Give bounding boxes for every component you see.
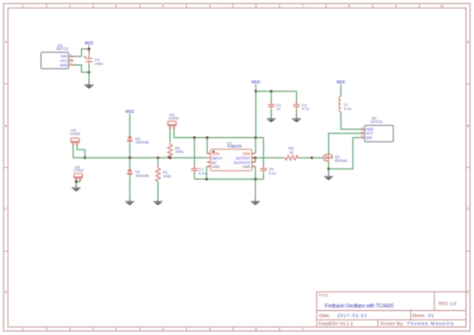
- frame zone ticks left: [4, 84, 9, 252]
- VCC stem (C2 rail): [255, 84, 257, 91]
- diode D1 1N4148: [127, 169, 132, 176]
- wire bus to D1: [129, 158, 131, 169]
- wire C2 drop: [270, 91, 272, 102]
- capacitor C4: [84, 52, 93, 69]
- wire gnd rail to ground: [254, 179, 256, 197]
- wire C4 to ground: [88, 64, 90, 81]
- node C4 bottom: [88, 71, 91, 74]
- ground (C3): [292, 115, 301, 123]
- svg-text:DAT: DAT: [366, 136, 374, 140]
- svg-text:VCC: VCC: [336, 79, 345, 84]
- svg-text:GND: GND: [212, 165, 220, 169]
- svg-text:Fedback Oscillator with TC4420: Fedback Oscillator with TC4420: [325, 304, 394, 310]
- VCC stem (L1): [340, 84, 342, 96]
- wire VCC node down to C4: [88, 49, 90, 53]
- wire U1 gnd right drop: [254, 166, 256, 179]
- title block divider REV: [433, 292, 435, 311]
- sensor U6 DHT22 box: [41, 52, 69, 69]
- svg-text:EasyEDA V4.1.3: EasyEDA V4.1.3: [319, 321, 353, 326]
- svg-text:4: 4: [162, 4, 164, 8]
- node R2 bus: [169, 157, 172, 160]
- ground (Q1): [324, 172, 333, 180]
- frame zone ticks top: [47, 4, 420, 9]
- svg-text:100u: 100u: [95, 62, 103, 66]
- ground (U5): [72, 184, 81, 192]
- node GND rail U1 right: [254, 178, 257, 181]
- svg-text:5: 5: [209, 327, 211, 331]
- wire VDD rail to C5: [263, 138, 265, 167]
- wire VCC cap rail: [256, 90, 297, 92]
- node gate: [311, 157, 314, 160]
- svg-text:3: 3: [115, 327, 117, 331]
- node U6 vcc: [88, 48, 91, 51]
- ground (C2): [267, 115, 276, 123]
- svg-text:DHT22: DHT22: [56, 47, 68, 51]
- wire U5 to ground: [75, 182, 77, 184]
- svg-text:Date:: Date:: [319, 313, 330, 318]
- wire DAT to VCC node: [74, 49, 90, 56]
- wire VDD rail to C1: [193, 138, 195, 167]
- frame zone ticks bottom: [47, 327, 280, 331]
- wire Q1 drain to U2 VCC: [329, 133, 361, 154]
- node source DAT: [327, 168, 330, 171]
- svg-text:0.1u: 0.1u: [199, 171, 206, 175]
- wire U4 pin2 to bus: [77, 146, 85, 158]
- sensor U2 DHT22 box: [365, 125, 394, 141]
- svg-text:B: B: [467, 124, 469, 128]
- wire VDD rail to U1 pin8: [255, 138, 257, 154]
- U1 pin1 marker: [213, 151, 215, 153]
- wire D2 to bus: [129, 143, 131, 158]
- U2 pin stubs: [361, 128, 365, 138]
- svg-text:Sheet:: Sheet:: [412, 313, 425, 318]
- svg-text:1.0: 1.0: [450, 301, 457, 306]
- resistor R3: [285, 155, 298, 160]
- frame zone letters left: [5, 40, 8, 294]
- wire L1 to U2 GND pin: [341, 112, 361, 129]
- svg-text:B: B: [5, 124, 7, 128]
- svg-text:7: 7: [302, 4, 304, 8]
- wire U2 DAT loop: [329, 138, 361, 169]
- wire U5 pin2 to pin1: [76, 181, 80, 183]
- connector U3 CON2 symbol: [168, 121, 177, 126]
- U6 pin 2 stub: [69, 60, 74, 62]
- U2 pin numbers: [361, 126, 363, 138]
- wire VDD rail: [174, 137, 264, 139]
- U1 left pin stubs: [207, 153, 211, 168]
- wire VCC down to VDD rail: [255, 91, 257, 137]
- wire GND rail: [194, 178, 263, 180]
- wire source to ground: [328, 169, 330, 173]
- title block row line 2: [317, 319, 466, 321]
- wire GND pin to cap bottom node: [74, 65, 90, 72]
- svg-text:1k: 1k: [289, 151, 293, 155]
- inductor L1: [339, 95, 341, 114]
- node VDD rail VCC feed: [254, 136, 257, 139]
- svg-text:6: 6: [255, 4, 257, 8]
- resistor R2: [168, 145, 173, 158]
- title block outline: [317, 292, 466, 327]
- svg-text:0.1u: 0.1u: [344, 107, 351, 111]
- wire U3 pin2 down: [173, 129, 175, 138]
- svg-text:TITLE:: TITLE:: [318, 294, 328, 298]
- frame zone ticks right: [466, 84, 470, 252]
- svg-text:D: D: [5, 290, 8, 294]
- svg-text:2017-02-22: 2017-02-22: [337, 313, 367, 318]
- wire U3 pin1 to R2: [169, 129, 171, 142]
- node VDD rail C1: [193, 136, 196, 139]
- U4 pin stubs: [72, 143, 78, 146]
- node GND rail U1 left: [205, 178, 208, 181]
- wire C5 to gnd rail: [263, 173, 265, 179]
- svg-text:100k: 100k: [175, 150, 183, 154]
- ground (U1): [251, 197, 260, 205]
- wire C3 to ground: [296, 111, 298, 115]
- svg-text:REV:: REV:: [439, 301, 449, 306]
- connector U4 CON2 symbol: [71, 138, 80, 143]
- svg-text:0.1u: 0.1u: [269, 171, 276, 175]
- U5 pin stubs: [75, 178, 81, 182]
- svg-text:2: 2: [69, 327, 71, 331]
- svg-text:1N4148: 1N4148: [135, 174, 148, 178]
- svg-text:VCC: VCC: [125, 109, 134, 114]
- capacitor C3: [293, 100, 300, 110]
- ground (D1): [125, 197, 134, 205]
- ground (C4): [85, 81, 94, 89]
- svg-text:1N4148: 1N4148: [135, 141, 148, 145]
- wire bus to R1: [157, 158, 159, 166]
- node D2 bus: [129, 157, 132, 160]
- wire Q1 source down: [328, 161, 330, 169]
- title block row line 1: [317, 310, 466, 312]
- svg-text:Thomas Masaitis: Thomas Masaitis: [407, 321, 454, 326]
- svg-text:4: 4: [162, 327, 164, 331]
- wire C1 to gnd rail: [193, 173, 195, 179]
- wire C2 to ground: [270, 111, 272, 115]
- svg-text:A: A: [5, 40, 8, 44]
- svg-text:1/1: 1/1: [428, 313, 435, 318]
- node VCC rail left: [255, 90, 258, 93]
- svg-text:1u: 1u: [276, 107, 280, 111]
- node C2 tap: [270, 90, 273, 93]
- svg-text:VCC: VCC: [85, 40, 94, 45]
- title block divider DrawnBy: [377, 320, 379, 327]
- node U1 output: [254, 157, 257, 160]
- wire C3 drop: [296, 91, 298, 102]
- svg-text:DHT22: DHT22: [371, 120, 383, 124]
- frame zone numbers top: [22, 4, 444, 8]
- svg-text:100k: 100k: [163, 174, 171, 178]
- wire R1 to ground: [157, 181, 159, 197]
- svg-text:10: 10: [440, 4, 444, 8]
- svg-text:CON2: CON2: [73, 169, 84, 173]
- svg-text:2: 2: [69, 4, 71, 8]
- wire U1 gnd left drop: [206, 166, 208, 179]
- U6 pin 1 stub: [69, 56, 74, 58]
- capacitor C2: [268, 100, 275, 110]
- IC U1 TC4420CPA box: [210, 149, 252, 171]
- capacitor C1: [191, 164, 198, 174]
- wire VCC to D2: [129, 114, 131, 136]
- wire U4 pin1 to bus: [72, 146, 74, 158]
- transistor Q1 IRF540: [324, 154, 333, 162]
- wire output to R3: [255, 157, 282, 159]
- node U5 join: [75, 180, 78, 183]
- title block divider Sheet: [410, 311, 412, 320]
- svg-text:7: 7: [302, 327, 304, 331]
- U6 pin numbers: [70, 53, 72, 66]
- svg-text:4.7u: 4.7u: [302, 107, 309, 111]
- wire R3 to gate node: [283, 157, 300, 159]
- connector U5 CON2 symbol: [74, 174, 83, 179]
- svg-text:VCC: VCC: [251, 79, 260, 84]
- svg-text:GND: GND: [242, 165, 250, 169]
- svg-text:6: 6: [255, 327, 257, 331]
- wire gate node to Q1: [312, 157, 322, 159]
- wire VDD drop to U1 pin1: [206, 138, 208, 154]
- svg-text:C: C: [5, 207, 8, 211]
- resistor R1: [156, 168, 161, 181]
- svg-text:TC4420CPA: TC4420CPA: [227, 145, 242, 149]
- node R1 bus: [157, 157, 160, 160]
- node VDD rail U1 left: [206, 136, 209, 139]
- wire output tie: [254, 158, 256, 162]
- capacitor C5: [260, 164, 267, 174]
- U1 right pin stubs: [252, 153, 256, 168]
- svg-text:GND: GND: [60, 63, 68, 67]
- ground (R1): [154, 197, 163, 205]
- svg-text:3: 3: [115, 4, 117, 8]
- svg-text:Drawn By:: Drawn By:: [381, 321, 405, 326]
- svg-text:9: 9: [395, 4, 397, 8]
- U6 pin 3 stub: [69, 64, 74, 66]
- wire feedback bus: [73, 157, 207, 159]
- svg-text:1: 1: [22, 4, 24, 8]
- svg-text:IRF540: IRF540: [335, 159, 347, 163]
- U3 pin stubs: [169, 126, 175, 129]
- frame zone letters right: [467, 40, 470, 294]
- svg-text:1: 1: [22, 327, 24, 331]
- wire D1 to ground: [129, 176, 131, 198]
- frame zone numbers bottom: [22, 327, 304, 331]
- node U4 join: [84, 157, 87, 160]
- svg-text:5: 5: [209, 4, 211, 8]
- VCC stem (U6): [88, 45, 90, 49]
- svg-text:8: 8: [348, 4, 350, 8]
- diode D2 1N4148: [127, 136, 132, 143]
- svg-text:CON2: CON2: [168, 117, 179, 121]
- svg-text:CON2: CON2: [70, 132, 81, 136]
